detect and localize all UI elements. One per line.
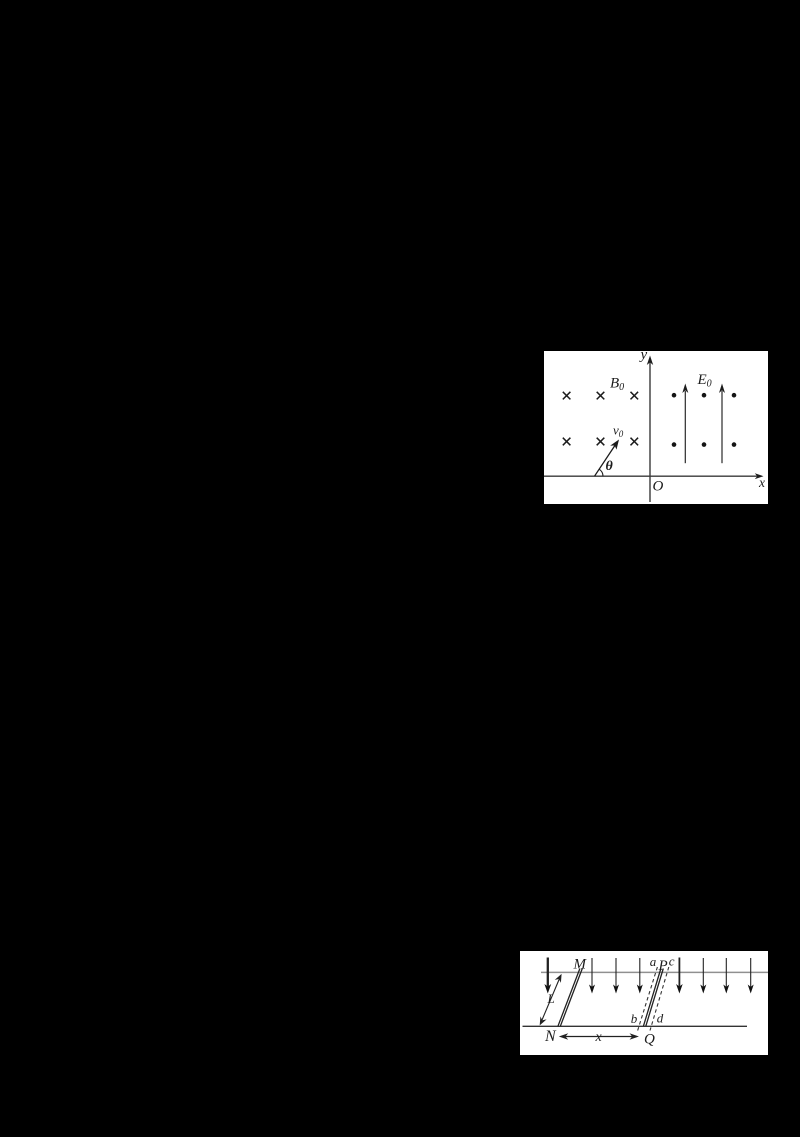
svg-text:v0: v0 [613, 423, 624, 440]
svg-text:P: P [658, 958, 668, 974]
svg-text:θ: θ [606, 459, 614, 474]
svg-text:x: x [595, 1030, 603, 1045]
svg-text:B0: B0 [610, 376, 624, 394]
svg-text:O: O [653, 479, 664, 495]
svg-text:a: a [650, 954, 657, 969]
svg-text:x: x [758, 475, 765, 490]
svg-text:E0: E0 [697, 372, 712, 390]
svg-text:Q: Q [644, 1032, 655, 1048]
svg-text:c: c [669, 954, 675, 969]
svg-text:d: d [657, 1011, 664, 1026]
svg-text:N: N [544, 1028, 557, 1045]
svg-text:y: y [639, 351, 648, 363]
svg-text:L: L [547, 991, 555, 1006]
svg-text:b: b [631, 1011, 638, 1026]
svg-text:M: M [573, 956, 588, 972]
